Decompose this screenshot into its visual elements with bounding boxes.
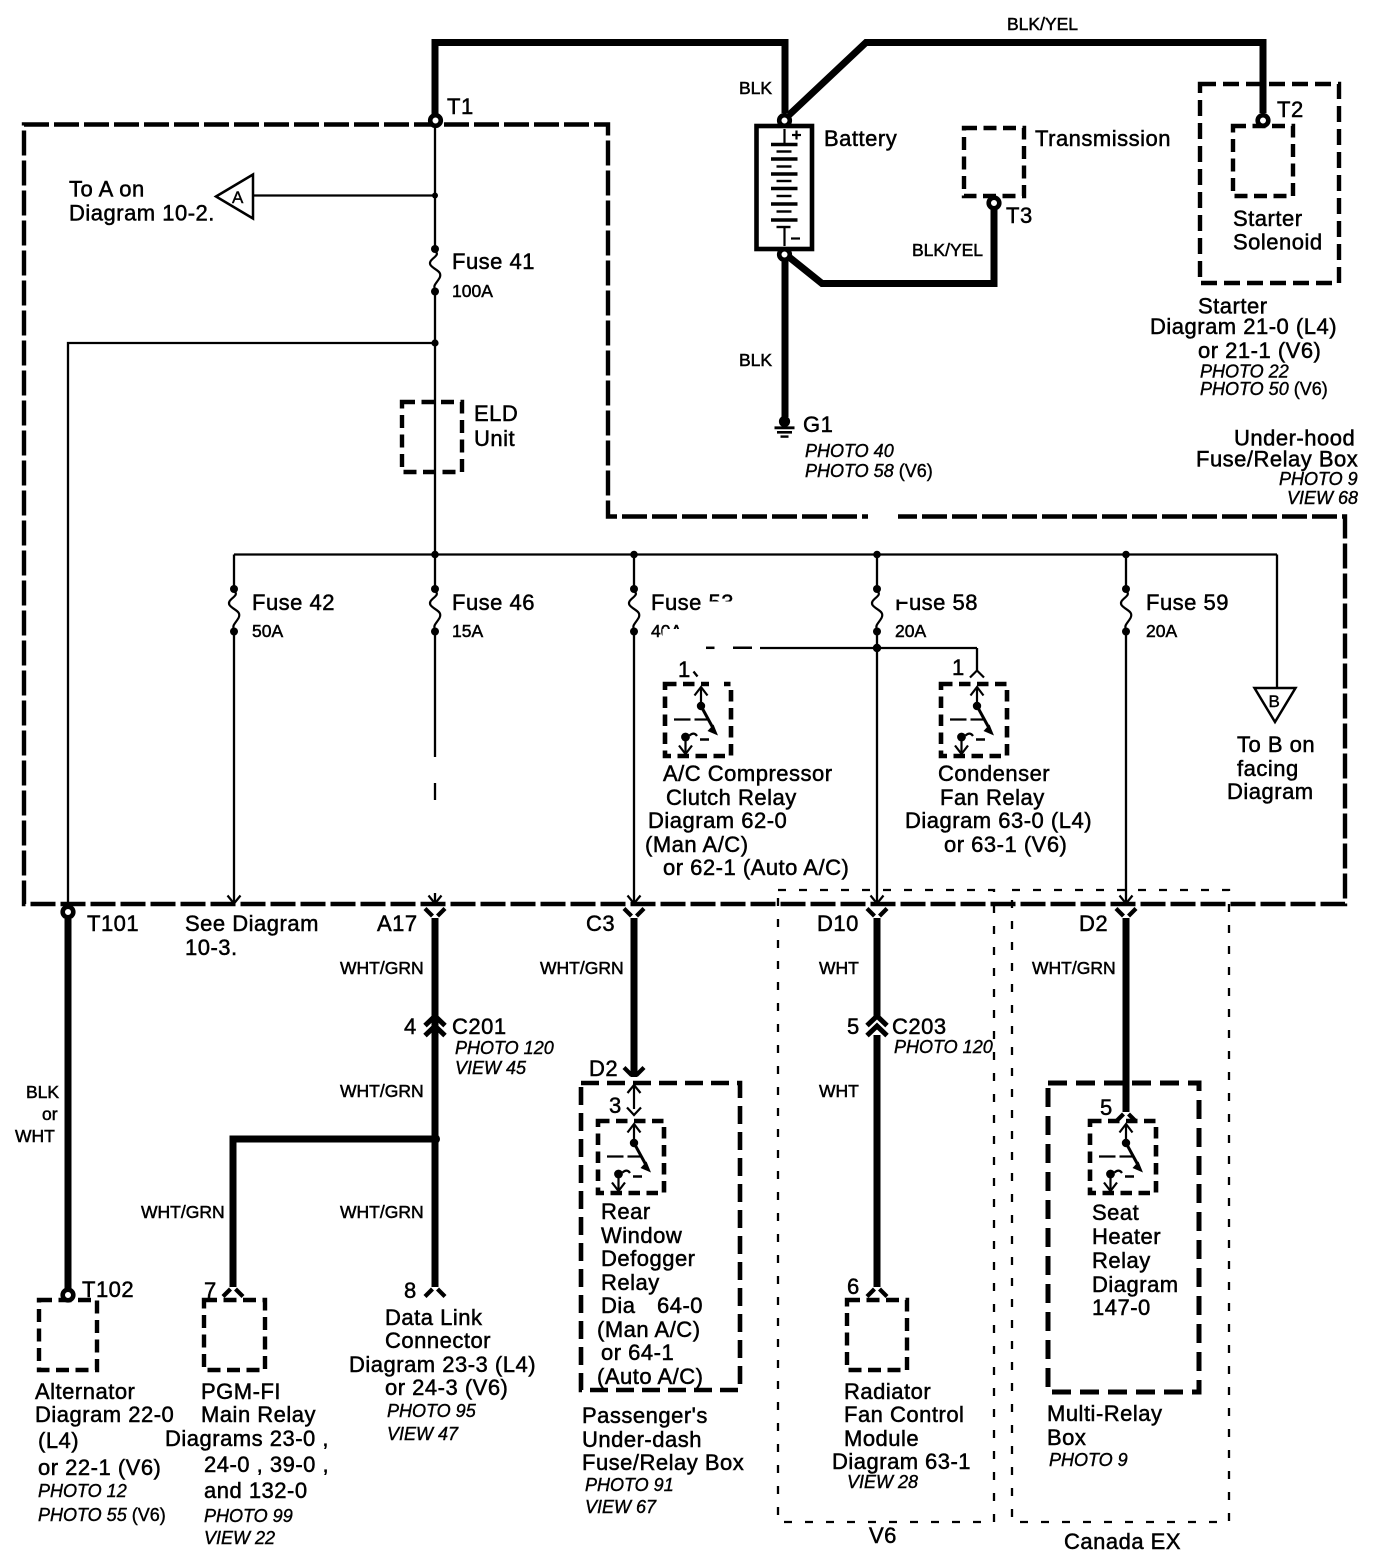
svg-text:100A: 100A (452, 281, 493, 301)
svg-text:C201: C201 (452, 1014, 507, 1039)
svg-text:(Auto A/C): (Auto A/C) (597, 1364, 703, 1389)
svg-text:Fuse 59: Fuse 59 (1146, 590, 1229, 615)
svg-text:Diagrams 23-0 ,: Diagrams 23-0 , (165, 1426, 329, 1451)
svg-text:A/C Compressor: A/C Compressor (663, 761, 833, 786)
svg-text:Diagram 63-0 (L4): Diagram 63-0 (L4) (905, 808, 1092, 833)
svg-text:50A: 50A (252, 621, 283, 641)
svg-text:T102: T102 (82, 1277, 134, 1302)
svg-text:or 24-3 (V6): or 24-3 (V6) (385, 1375, 508, 1400)
svg-text:D2: D2 (1079, 911, 1108, 936)
svg-text:PHOTO 120: PHOTO 120 (894, 1037, 993, 1057)
svg-text:VIEW 47: VIEW 47 (387, 1424, 459, 1444)
svg-text:BLK: BLK (739, 350, 772, 370)
svg-text:or 63-1 (V6): or 63-1 (V6) (944, 832, 1067, 857)
svg-text:or 21-1 (V6): or 21-1 (V6) (1198, 338, 1321, 363)
svg-text:3: 3 (609, 1093, 622, 1118)
svg-text:Box: Box (1047, 1425, 1086, 1450)
svg-text:WHT/GRN: WHT/GRN (1032, 958, 1116, 978)
svg-text:PHOTO 55 (V6): PHOTO 55 (V6) (38, 1505, 166, 1525)
svg-text:C3: C3 (586, 911, 615, 936)
svg-text:VIEW 28: VIEW 28 (847, 1472, 918, 1492)
svg-text:A17: A17 (377, 911, 418, 936)
svg-text:20A: 20A (1146, 621, 1177, 641)
svg-text:Fuse 41: Fuse 41 (452, 249, 535, 274)
svg-text:Fuse/Relay Box: Fuse/Relay Box (1196, 447, 1358, 472)
svg-text:or 64-1: or 64-1 (601, 1340, 674, 1365)
svg-text:Condenser: Condenser (938, 761, 1050, 786)
svg-text:T101: T101 (87, 911, 139, 936)
svg-text:T2: T2 (1277, 97, 1304, 122)
svg-text:G1: G1 (803, 412, 833, 437)
svg-text:Main Relay: Main Relay (201, 1402, 316, 1427)
svg-text:Fuse 46: Fuse 46 (452, 590, 535, 615)
svg-text:VIEW 68: VIEW 68 (1287, 488, 1358, 508)
svg-text:1: 1 (678, 657, 691, 682)
svg-text:T3: T3 (1006, 203, 1033, 228)
svg-text:6: 6 (847, 1274, 860, 1299)
svg-text:ELD: ELD (474, 401, 518, 426)
svg-text:PHOTO 95: PHOTO 95 (387, 1401, 477, 1421)
svg-text:PHOTO 9: PHOTO 9 (1049, 1450, 1128, 1470)
svg-text:A: A (232, 188, 244, 207)
svg-text:D10: D10 (817, 911, 859, 936)
svg-text:T1: T1 (447, 94, 474, 119)
svg-text:Fan Control: Fan Control (844, 1402, 964, 1427)
svg-text:1: 1 (952, 655, 965, 680)
svg-text:Canada EX: Canada EX (1064, 1529, 1181, 1554)
svg-text:Relay: Relay (1092, 1248, 1151, 1273)
svg-text:Diagram 21-0 (L4): Diagram 21-0 (L4) (1150, 314, 1337, 339)
svg-text:VIEW 22: VIEW 22 (204, 1528, 275, 1548)
svg-text:or 22-1 (V6): or 22-1 (V6) (38, 1455, 161, 1480)
svg-text:147-0: 147-0 (1092, 1295, 1151, 1320)
svg-text:Module: Module (844, 1426, 919, 1451)
svg-text:Diagram: Diagram (832, 1449, 919, 1474)
svg-text:Solenoid: Solenoid (1233, 230, 1323, 255)
svg-text:(Man A/C): (Man A/C) (645, 832, 749, 857)
svg-text:Dia: Dia (601, 1293, 636, 1318)
svg-text:PHOTO 12: PHOTO 12 (38, 1481, 127, 1501)
svg-text:Data Link: Data Link (385, 1305, 483, 1330)
svg-text:15A: 15A (452, 621, 483, 641)
svg-text:10-3.: 10-3. (185, 935, 238, 960)
svg-text:VIEW 45: VIEW 45 (455, 1058, 527, 1078)
svg-text:VIEW 67: VIEW 67 (585, 1497, 657, 1517)
svg-text:PHOTO 9: PHOTO 9 (1279, 469, 1358, 489)
svg-text:or: or (42, 1104, 58, 1124)
svg-text:WHT/GRN: WHT/GRN (340, 1081, 424, 1101)
svg-text:Fuse/Relay Box: Fuse/Relay Box (582, 1450, 744, 1475)
svg-text:or 62-1 (Auto A/C): or 62-1 (Auto A/C) (663, 855, 849, 880)
svg-text:WHT/GRN: WHT/GRN (340, 958, 424, 978)
svg-text:4: 4 (404, 1014, 417, 1039)
svg-text:WHT: WHT (15, 1126, 55, 1146)
svg-text:PGM-FI: PGM-FI (201, 1379, 281, 1404)
svg-text:Diagram 23-3 (L4): Diagram 23-3 (L4) (349, 1352, 536, 1377)
svg-text:Unit: Unit (474, 426, 515, 451)
svg-text:and 132-0: and 132-0 (204, 1478, 308, 1503)
svg-text:7: 7 (204, 1278, 217, 1303)
svg-text:B: B (1269, 692, 1280, 711)
svg-text:PHOTO 99: PHOTO 99 (204, 1506, 293, 1526)
svg-text:64-0: 64-0 (657, 1293, 703, 1318)
svg-text:Heater: Heater (1092, 1224, 1161, 1249)
svg-text:5: 5 (847, 1014, 860, 1039)
svg-text:8: 8 (404, 1278, 417, 1303)
svg-text:BLK: BLK (739, 78, 772, 98)
svg-text:Radiator: Radiator (844, 1379, 931, 1404)
svg-text:Diagram: Diagram (1227, 779, 1314, 804)
svg-text:Connector: Connector (385, 1328, 491, 1353)
svg-text:WHT/GRN: WHT/GRN (340, 1202, 424, 1222)
svg-text:Alternator: Alternator (35, 1379, 135, 1404)
svg-text:WHT: WHT (819, 958, 859, 978)
svg-text:(L4): (L4) (38, 1428, 79, 1453)
svg-text:Seat: Seat (1092, 1200, 1139, 1225)
svg-text:PHOTO 58 (V6): PHOTO 58 (V6) (805, 461, 933, 481)
svg-text:Diagram 22-0: Diagram 22-0 (35, 1402, 174, 1427)
svg-text:PHOTO 50 (V6): PHOTO 50 (V6) (1200, 379, 1328, 399)
svg-text:Clutch Relay: Clutch Relay (666, 785, 797, 810)
svg-text:Starter: Starter (1233, 206, 1303, 231)
svg-text:20A: 20A (895, 621, 926, 641)
svg-text:Diagram: Diagram (1092, 1272, 1179, 1297)
svg-text:D2: D2 (589, 1056, 618, 1081)
svg-text:(Man A/C): (Man A/C) (597, 1317, 701, 1342)
svg-text:WHT/GRN: WHT/GRN (141, 1202, 225, 1222)
svg-text:WHT: WHT (819, 1081, 859, 1101)
svg-text:PHOTO 40: PHOTO 40 (805, 441, 894, 461)
svg-text:Battery: Battery (824, 126, 897, 151)
svg-text:Fan Relay: Fan Relay (940, 785, 1045, 810)
svg-text:BLK/YEL: BLK/YEL (1007, 14, 1078, 34)
svg-text:To A on: To A on (69, 177, 145, 202)
svg-text:Relay: Relay (601, 1270, 660, 1295)
svg-text:24-0 , 39-0 ,: 24-0 , 39-0 , (204, 1452, 329, 1477)
svg-text:5: 5 (1100, 1095, 1113, 1120)
svg-text:BLK: BLK (26, 1082, 59, 1102)
svg-text:63-1: 63-1 (925, 1449, 971, 1474)
svg-text:PHOTO 91: PHOTO 91 (585, 1475, 674, 1495)
svg-text:V6: V6 (869, 1523, 897, 1548)
svg-text:Under-dash: Under-dash (582, 1427, 702, 1452)
svg-text:Diagram 62-0: Diagram 62-0 (648, 808, 787, 833)
svg-text:Multi-Relay: Multi-Relay (1047, 1401, 1163, 1426)
svg-text:facing: facing (1237, 756, 1299, 781)
svg-text:Defogger: Defogger (601, 1246, 696, 1271)
svg-text:BLK/YEL: BLK/YEL (912, 240, 983, 260)
svg-text:Fuse 42: Fuse 42 (252, 590, 335, 615)
svg-text:C203: C203 (892, 1014, 947, 1039)
svg-text:To B on: To B on (1237, 732, 1315, 757)
svg-text:WHT/GRN: WHT/GRN (540, 958, 624, 978)
svg-text:Window: Window (601, 1223, 682, 1248)
svg-text:Passenger's: Passenger's (582, 1403, 708, 1428)
svg-text:PHOTO 120: PHOTO 120 (455, 1038, 554, 1058)
svg-text:Transmission: Transmission (1035, 126, 1171, 151)
svg-text:Diagram 10-2.: Diagram 10-2. (69, 201, 215, 226)
svg-text:Rear: Rear (601, 1199, 651, 1224)
svg-text:See Diagram: See Diagram (185, 911, 319, 936)
